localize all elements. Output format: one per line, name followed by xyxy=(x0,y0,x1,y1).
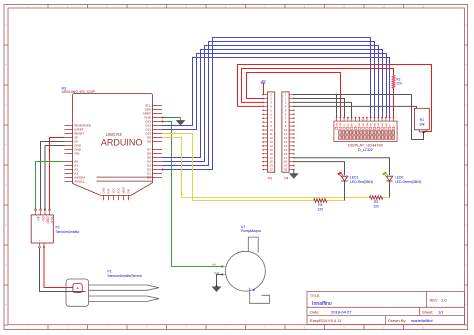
svg-text:H: H xyxy=(5,304,7,307)
svg-text:H: H xyxy=(465,304,467,307)
svg-text:D: D xyxy=(465,144,467,147)
svg-text:F: F xyxy=(5,224,7,227)
svg-text:A: A xyxy=(5,24,7,27)
svg-text:SCK: SCK xyxy=(117,188,121,194)
svg-text:Innaffino: Innaffino xyxy=(312,301,332,307)
svg-text:A: A xyxy=(389,125,392,127)
svg-text:SensoreUmidita: SensoreUmidita xyxy=(56,230,80,234)
svg-text:P4: P4 xyxy=(285,177,289,181)
svg-text:1/1: 1/1 xyxy=(438,309,444,314)
resistor R2 220 xyxy=(392,75,402,88)
svg-text:REV: REV xyxy=(430,298,439,303)
wire P2 minus to P1 (dark) xyxy=(40,248,86,292)
svg-text:mariellalillini: mariellalillini xyxy=(411,318,433,323)
svg-text:P3: P3 xyxy=(268,177,272,181)
wire P4.1 GND to display pin1 and R1 bottom xyxy=(294,95,424,140)
arduino M1 ARDUINO_R3_ICSP xyxy=(62,87,163,201)
svg-text:VO: VO xyxy=(344,123,346,126)
svg-text:RX0: RX0 xyxy=(107,188,111,194)
svg-text:GND: GND xyxy=(46,217,50,225)
display D_LCD2 DISPLAY_HD44780 xyxy=(334,117,397,152)
svg-text:20: 20 xyxy=(284,168,288,172)
wire D10 yellow to R4/LED1 xyxy=(162,134,345,201)
svg-text:+5V: +5V xyxy=(260,79,267,83)
svg-text:-: - xyxy=(44,239,45,242)
svg-text:VSS: VSS xyxy=(336,122,338,127)
svg-text:DB3: DB3 xyxy=(371,122,373,127)
svg-text:SensoreUmiditaTerreno: SensoreUmiditaTerreno xyxy=(108,274,143,278)
resistor R3 220 xyxy=(369,196,382,200)
svg-text:RW: RW xyxy=(352,123,354,126)
svg-text:220: 220 xyxy=(373,204,379,208)
svg-text:Date:: Date: xyxy=(310,309,320,314)
svg-text:8: 8 xyxy=(304,326,306,329)
svg-text:DB7: DB7 xyxy=(386,122,388,127)
svg-text:10k: 10k xyxy=(419,122,425,126)
wire LED1 bottom lead xyxy=(344,181,346,201)
svg-text:RS: RS xyxy=(348,123,350,126)
svg-text:F: F xyxy=(465,224,467,227)
svg-text:B: B xyxy=(5,64,7,67)
svg-text:+: + xyxy=(39,239,41,242)
svg-text:D_LCD2: D_LCD2 xyxy=(358,147,373,152)
wire red +5V rail to display pin2 xyxy=(247,73,341,118)
wire red +5V rail to R1 bottom xyxy=(238,65,432,132)
svg-text:UNO R3: UNO R3 xyxy=(106,132,122,137)
wire blue data bus xyxy=(162,58,390,126)
svg-text:VIN: VIN xyxy=(74,152,79,156)
ground (near arduino) xyxy=(177,118,185,125)
svg-text:C: C xyxy=(465,104,467,107)
svg-text:B: B xyxy=(465,64,467,67)
svg-text:C: C xyxy=(5,104,7,107)
wire blue data bus xyxy=(162,42,375,166)
wire P4.3 to display pin5 xyxy=(294,102,352,117)
svg-text:VCC: VCC xyxy=(50,217,54,224)
node R1 bottom junction xyxy=(422,131,424,133)
node D2 pin xyxy=(162,169,164,171)
wire GND pin to ground xyxy=(162,117,181,119)
svg-text:DB1: DB1 xyxy=(363,122,365,127)
svg-text:LED-Red(0603): LED-Red(0603) xyxy=(350,180,373,184)
svg-text:K: K xyxy=(393,125,395,127)
svg-text:6: 6 xyxy=(225,326,227,329)
svg-text:PompaAcqua: PompaAcqua xyxy=(241,229,261,233)
connector P4 xyxy=(282,92,295,181)
svg-text:11: 11 xyxy=(422,326,425,329)
svg-text:1.0: 1.0 xyxy=(441,298,447,303)
svg-text:G: G xyxy=(465,264,467,267)
wire P4.4 to R1 top xyxy=(294,106,417,108)
svg-text:TITLE:: TITLE: xyxy=(310,294,320,298)
svg-text:5: 5 xyxy=(185,326,187,329)
power +5V xyxy=(260,79,267,95)
svg-text:EasyEDA V5.4.11: EasyEDA V5.4.11 xyxy=(310,318,342,323)
svg-text:D: D xyxy=(5,144,7,147)
svg-text:20: 20 xyxy=(269,168,273,172)
svg-text:A0: A0 xyxy=(36,217,40,221)
svg-text:LED-Green(0603): LED-Green(0603) xyxy=(395,180,421,184)
svg-text:Drawn By:: Drawn By: xyxy=(388,318,406,323)
svg-text:D0: D0 xyxy=(41,217,45,221)
svg-text:10: 10 xyxy=(382,326,385,329)
svg-text:1: 1 xyxy=(27,326,29,329)
svg-text:DB5: DB5 xyxy=(378,122,380,127)
svg-text:3: 3 xyxy=(106,326,108,329)
wire blue data bus xyxy=(162,50,383,158)
svg-text:220: 220 xyxy=(318,207,324,211)
svg-text:MISO: MISO xyxy=(122,187,126,194)
wire P4.18 to LED1 xyxy=(294,162,345,175)
wire blue data bus xyxy=(162,46,379,162)
svg-text:2: 2 xyxy=(67,326,69,329)
wire GND to P2 (dark) xyxy=(45,146,65,210)
wire P4.2 to display pin3 xyxy=(294,98,345,117)
svg-text:GND: GND xyxy=(102,188,106,194)
svg-text:D8: D8 xyxy=(147,140,151,144)
node D13 pin xyxy=(162,121,164,123)
svg-text:220: 220 xyxy=(396,82,402,86)
svg-text:D0: D0 xyxy=(147,176,151,180)
svg-text:VDD: VDD xyxy=(340,122,342,127)
wire 3V to P2 VCC (red) xyxy=(50,138,65,210)
svg-text:5V0: 5V0 xyxy=(127,188,131,193)
svg-text:E: E xyxy=(355,125,357,127)
wire P2 plus to P1 (red) xyxy=(44,248,73,288)
node junction display pin1 xyxy=(336,94,338,96)
resistor R1 10k xyxy=(415,108,430,132)
svg-text:2018-04-27: 2018-04-27 xyxy=(331,309,352,314)
resistor R4 220 xyxy=(314,199,327,203)
svg-text:DB6: DB6 xyxy=(382,122,384,127)
title block xyxy=(307,292,465,325)
svg-text:E: E xyxy=(465,184,467,187)
svg-text:A: A xyxy=(465,24,467,27)
svg-text:DB4: DB4 xyxy=(374,122,376,127)
wire red +5V rail to R2/display pin16 xyxy=(242,69,394,118)
LED LED0 green xyxy=(383,172,421,184)
wire 5V/GND to P2 (dark) xyxy=(41,142,65,210)
svg-text:A5/SCL: A5/SCL xyxy=(74,180,85,184)
LED LED1 red xyxy=(338,172,373,184)
node GND pin xyxy=(162,117,164,119)
node pump gnd xyxy=(216,285,218,287)
wire D9 yellow to R3/LED0 xyxy=(162,138,390,198)
svg-text:DB2: DB2 xyxy=(367,122,369,127)
svg-text:4: 4 xyxy=(146,326,148,329)
svg-text:7: 7 xyxy=(264,326,266,329)
svg-text:ARDUINO: ARDUINO xyxy=(101,137,143,147)
wire A0 to P2 A0 (green) xyxy=(36,162,65,210)
wire LED0 bottom lead xyxy=(389,181,391,198)
ground (below P4) xyxy=(290,174,298,178)
svg-text:9: 9 xyxy=(343,326,345,329)
svg-text:G: G xyxy=(5,264,7,267)
connector P3 xyxy=(262,92,274,181)
wire P4.17 to LED0 xyxy=(294,158,390,175)
svg-text:DB0: DB0 xyxy=(359,122,361,127)
wire blue data bus xyxy=(162,54,387,130)
motor U7 PompaAcqua xyxy=(213,225,270,303)
wire pump gnd xyxy=(217,275,223,287)
sensor P1 SensoreUmiditaTerreno xyxy=(66,270,159,307)
connector P2 SensoreUmidita xyxy=(31,209,79,248)
svg-text:VCC: VCC xyxy=(112,188,116,194)
svg-text:E: E xyxy=(5,184,7,187)
svg-text:M+: M+ xyxy=(213,263,217,267)
wire D13 to pump M+ (green) xyxy=(162,122,223,267)
ground (pump) xyxy=(213,287,221,291)
svg-text:Sheet:: Sheet: xyxy=(422,309,434,314)
wire P4.20 to ground xyxy=(293,170,295,174)
wire blue data bus xyxy=(162,38,371,170)
